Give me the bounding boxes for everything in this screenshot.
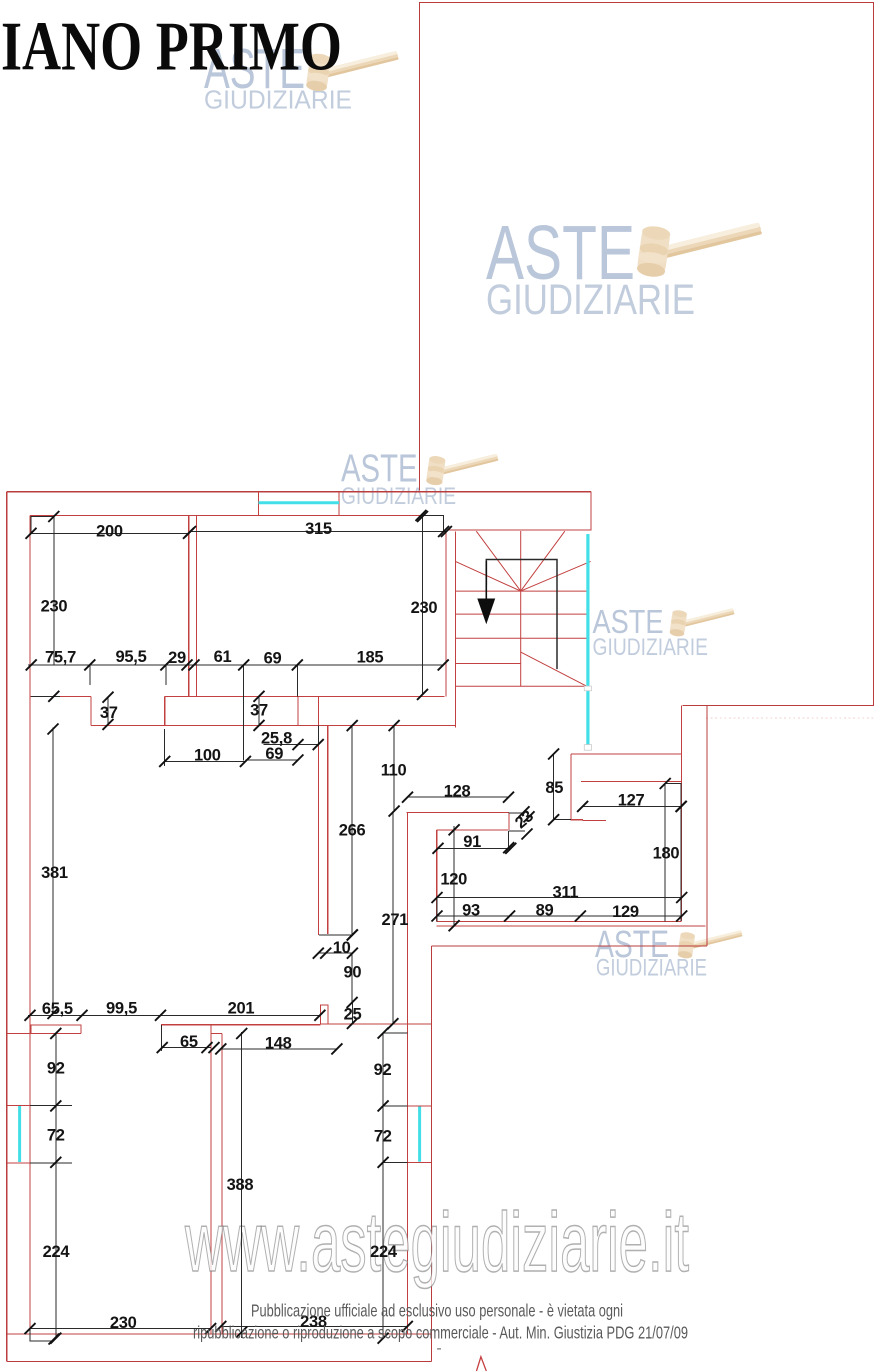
svg-text:120: 120 [440,870,467,888]
ticks: row 93/89/129 [432,911,443,922]
extension lines hanging from row y=664.9 [90,665,297,761]
ticks: 37 left [103,692,114,703]
wall: middle pier y=1033.4 [211,1032,222,1034]
svg-text:311: 311 [553,884,579,902]
ticks: row 65,5/99,5/201 [25,1010,36,1021]
window: glass in left outer wall [18,1106,21,1162]
dimension 148: line y=1048.9 [221,1048,337,1050]
dimension 120: vertical line x=454.1 [453,826,455,926]
dimension 381: vertical line x=53 [52,728,54,1014]
dimension 69: line y=760 [245,759,298,761]
watermark logo 2: ASTE GIUDIZIARIE large center [486,210,762,324]
svg-text:230: 230 [41,598,68,616]
dimension 230 left: bottom extension [31,695,60,697]
svg-text:37: 37 [250,701,268,719]
wall: big room east wall x=318.6/327.7 [319,725,328,935]
wall: jamb x=318.6 [318,696,320,725]
dimension 91: line y=848.3 [438,847,511,849]
ticks: 37 right [254,691,265,702]
wire: faint dotted line under upper-right room bottom [706,717,874,719]
dimension column right 92/72/224: vertical line x=383.1 [383,1033,407,1338]
svg-text:185: 185 [357,648,384,666]
svg-text:148: 148 [265,1035,292,1053]
ticks: right column 92/72/224 [378,1028,389,1039]
dimension column left 92/72/224: vertical line x=55.8 [55,1033,57,1338]
outer boundary: top edge of plan [7,491,591,493]
ticks: 148 [215,1043,226,1054]
watermark logo 4: ASTE GIUDIZIARIE at stairs [593,603,735,661]
svg-text:65,5: 65,5 [42,1000,73,1018]
extension lines at right window sills [383,1106,407,1162]
ticks: 180 [660,778,671,789]
dimension 65: line y=1047.6 with extensions [162,1025,211,1051]
outer boundary: left edge of plan [6,492,8,1362]
watermark logo 1: ASTE GIUDIZIARIE top [204,37,399,115]
svg-text:129: 129 [612,903,639,921]
ticks: 120 [449,824,460,835]
wall: closet west wall x=436.7 [436,830,438,922]
svg-text:90: 90 [344,964,362,982]
wall: inner top wall y=515 [30,514,421,516]
svg-text:10: 10 [333,939,351,957]
ticks: 100 [159,756,170,767]
ticks: 25 vertical [347,1018,358,1029]
wall: right wall of 315-room x=445.8 [445,533,447,697]
svg-text:www.astegiudiziarie.it: www.astegiudiziarie.it [184,1195,689,1289]
watermark logo 3: ASTE GIUDIZIARIE mid-left [341,448,499,511]
dimension 10: lines at stub end [318,935,352,953]
outer boundary: large upper-right room rectangle [420,3,874,706]
svg-text:-: - [436,1340,441,1357]
ticks: dimension 315 [185,526,196,537]
stairs: winder treads radiating [455,531,590,591]
svg-text:110: 110 [381,761,407,779]
ticks: 90 [347,997,358,1008]
ticks: 381 [48,724,59,735]
stairs: center stringer vertical [520,531,522,686]
svg-text:266: 266 [339,822,366,840]
ticks: 10 [347,929,358,940]
ticks: 128 [402,792,413,803]
wall: jamb x=297.9 [297,696,299,725]
wall: hall pier end x=508.8 [508,813,510,830]
svg-text:100: 100 [194,747,221,765]
dimension 100: line y=761.4 [165,729,246,766]
svg-text:388: 388 [227,1176,254,1194]
svg-text:271: 271 [381,911,408,929]
ticks: 25,8 [293,739,304,750]
wall: wall y=754 right of stairs [571,753,682,755]
outer boundary: bottom edge of plan [7,1361,432,1363]
svg-text:GIUDIZIARIE: GIUDIZIARIE [596,955,707,982]
dimension 315: line [191,531,447,533]
dimension 388: vertical line x=241.7 [241,1032,243,1338]
dimension 37 left: jamb thickness [107,697,109,724]
wall: kitchen south outer line y=925.8 [437,925,706,927]
dimension row 75,7/95,5/29/61/69/185: line y=664.9 [28,664,444,666]
svg-text:92: 92 [47,1060,65,1078]
watermark logo 5: ASTE GIUDIZIARIE at kitchen [595,924,743,982]
svg-text:75,7: 75,7 [45,649,76,667]
svg-text:65: 65 [180,1033,198,1051]
dimension 230 right: vertical line [422,517,424,695]
svg-text:25: 25 [344,1006,362,1024]
wall: door jamb x=90.8 [90,696,92,725]
wall: kitchen north wall y=781.5 [581,781,682,783]
dimension 180: vertical line x=665.2 with top corner [665,784,681,922]
svg-text:95,5: 95,5 [116,648,147,666]
svg-text:85: 85 [545,779,563,797]
dimension 25: vertical line x=352.4 [351,1002,353,1023]
svg-text:230: 230 [110,1314,137,1332]
svg-text:Pubblicazione ufficiale ad esc: Pubblicazione ufficiale ad esclusivo uso… [251,1301,623,1321]
dimension 238 bottom: line y=1326.4 [221,1325,407,1327]
wall: lower face of left pier y=1033.4 [7,1032,81,1034]
dimension 90: vertical line x=352.1 [351,953,353,1002]
ticks: 91 [433,843,444,854]
dimension 266: vertical line x=352.2 [351,726,353,935]
stairs down arrow [477,561,495,624]
dimension 25,8: line y=744.6 [263,726,318,745]
svg-text:29: 29 [168,649,186,667]
ticks: dimension 200 [26,528,37,539]
wall: divider between bottom rooms x=210.8/222 [211,1025,222,1334]
wall: horizontal wall y=1023.8 to right wall [321,1023,432,1025]
dimension 311: line y=897.5 [437,897,682,899]
ticks: 110 [389,720,400,731]
svg-text:381: 381 [41,864,68,882]
wall: window sills on left outer wall [7,1105,30,1162]
wall: top window jambs of 315-room [259,492,340,516]
window: glass in east wall of bottom rooms [418,1107,421,1162]
ticks: left column 92/72/224 [50,1028,61,1039]
svg-text:GIUDIZIARIE: GIUDIZIARIE [341,483,456,510]
ticks: 266 [347,720,358,731]
svg-text:200: 200 [96,523,123,541]
stairs: diagonal flight edge [521,652,587,686]
svg-text:69: 69 [264,650,282,668]
wall: south wall of top rooms y=696.3 [30,695,445,697]
svg-text:224: 224 [370,1243,398,1261]
svg-text:93: 93 [462,902,480,920]
dimension 128: line y=797.2 [408,796,509,798]
dimension 315: right extension corner [421,515,444,531]
north arrow fragment at bottom edge [477,1357,487,1371]
wall: stair landing bottom and right edge [448,492,591,531]
wall: left pier between big room and bottom room [31,1025,81,1034]
dimension 110: vertical line x=394.1 [393,726,395,812]
ticks: row 75,7/95,5/29/61/69/185 [26,659,37,670]
wall: horizontal wall y=1024.7 under 201 dim [161,1024,321,1026]
dimension 200: line with extension corner [31,517,189,534]
window: glass line in top wall of 315-room [259,501,340,504]
ticks: dimension 230 left [48,691,59,702]
dimension 230 left: vertical line [53,517,55,665]
wall: bottom rooms east wall x=407.3 [406,813,408,1335]
dimension 271: vertical line x=392.9 [392,811,394,1024]
wall: kitchen east wall x=681.5 [681,706,683,922]
ticks: 388 [236,1028,247,1039]
svg-text:IANO PRIMO: IANO PRIMO [1,9,342,86]
svg-text:72: 72 [47,1126,65,1144]
ticks: 127 [577,801,588,812]
ticks: 23 diagonal chevrons [519,806,530,817]
svg-text:61: 61 [214,648,232,666]
svg-text:180: 180 [653,844,680,862]
ticks: dimension 230 right [417,689,428,700]
svg-text:69: 69 [265,745,283,763]
svg-text:72: 72 [374,1128,392,1146]
dimension 23: extension lines of diagonal mini-dim [509,813,525,848]
svg-text:91: 91 [463,833,481,851]
extension lines at left window sills [30,1105,72,1162]
wall: hall pier lower line y=829.8 [437,829,509,831]
svg-text:99,5: 99,5 [106,1000,137,1018]
dimension 230 bottom: line y=1328.6 with corner extension [30,1329,211,1341]
wall: stairs left wall x=455.3 [454,532,456,728]
wall: jamb x=164.7 [164,696,166,725]
wall: window sills on right wall of bottom rooms [407,1106,431,1162]
dimension row 93/89/129: line y=916 [437,898,682,922]
svg-text:GIUDIZIARIE: GIUDIZIARIE [593,634,709,661]
svg-text:37: 37 [100,704,118,722]
ticks: 65 [157,1042,168,1053]
wall: inner bottom wall y=1334 [7,1333,432,1335]
svg-text:89: 89 [536,902,554,920]
svg-text:92: 92 [374,1061,392,1079]
outer boundary: lower-right vertical edge x=431.5 [431,946,433,1362]
stairs: treads [455,591,587,686]
window: stairwell glass wall east side [584,534,591,750]
wall: kitchen south wall y=921.6 [437,921,681,923]
wall: hall north wall y=725.4 [91,724,456,726]
ticks: 230 bottom [25,1323,36,1334]
outer boundary: right vertical edge x=707 below big room [706,706,708,947]
svg-text:224: 224 [43,1243,71,1261]
svg-text:127: 127 [618,791,645,809]
wall: boiler recess walls [571,754,583,820]
svg-text:315: 315 [305,520,332,538]
wall: niche stub y=820.4 [582,819,606,821]
wall: inner left wall x=30 [29,515,31,1334]
wall: divider between top-left rooms x=188.7/196.3 [189,515,197,696]
ticks: 69 [292,755,303,766]
svg-text:128: 128 [444,783,471,801]
ticks: 271 [387,1018,398,1029]
stairwell opening outline [486,560,557,670]
ticks: 85 [548,749,559,760]
svg-text:230: 230 [411,599,438,617]
svg-text:GIUDIZIARIE: GIUDIZIARIE [486,276,695,324]
dimension 37 right: wall thickness [258,696,260,725]
dimension 127: line y=806.4 [583,805,682,807]
dimension row 65,5/99,5/201: line y=1015.3 [28,1014,320,1016]
extension line x=681 kitchen east [670,784,682,921]
dimension 85: vertical line x=553.6 with bottom extension [554,754,571,820]
svg-text:201: 201 [228,1000,255,1018]
ticks: 311 [432,892,443,903]
wall: hall pier upper line y=812.5 [407,812,509,814]
outer boundary: lower horizontal edge y=946 [432,945,708,947]
ticks: 238 bottom [215,1321,226,1332]
wall: east wall lower pier with cap [321,1005,328,1024]
svg-text:GIUDIZIARIE: GIUDIZIARIE [204,85,352,115]
